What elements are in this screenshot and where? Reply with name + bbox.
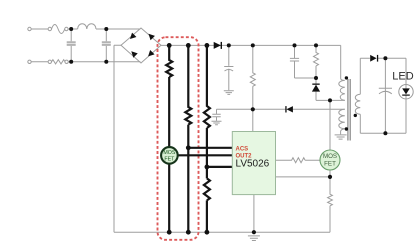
node clamp junction bbox=[314, 76, 318, 80]
svg-text:ACS: ACS bbox=[236, 147, 249, 153]
wire GND pin bbox=[207, 166, 232, 168]
node secondary top bbox=[383, 56, 387, 60]
wire line 1 lower bbox=[168, 163, 170, 232]
snubber capacitor C5 bbox=[290, 45, 316, 78]
capacitor C4 plates bbox=[212, 114, 220, 116]
wire OUT2 pin (gate) bbox=[177, 154, 232, 156]
wire bbox=[68, 28, 78, 30]
capacitor C1 wires bbox=[70, 31, 72, 61]
node rail line1 bbox=[167, 43, 172, 48]
svg-text:MOS: MOS bbox=[323, 153, 337, 160]
diode D4 (output) bbox=[370, 55, 378, 62]
terminal node bbox=[65, 60, 68, 63]
node rail R3 bbox=[314, 43, 318, 47]
transformer T1 aux winding bbox=[339, 109, 345, 129]
wire top input bbox=[31, 28, 48, 30]
bridge diode upper-left bbox=[128, 32, 155, 59]
sense resistor R5 bbox=[328, 177, 333, 232]
node ACS junction bbox=[186, 145, 191, 150]
polarity dot secondary bbox=[354, 114, 357, 117]
inductor L1 bbox=[78, 24, 96, 29]
wire aux return bbox=[341, 129, 345, 135]
svg-text:LED: LED bbox=[392, 71, 413, 83]
terminal J2 (AC line bottom) bbox=[28, 60, 31, 63]
capacitor C2 plates bbox=[102, 42, 111, 45]
wire CS pin bbox=[276, 176, 331, 178]
svg-text:FET: FET bbox=[324, 160, 336, 167]
node rail line3 bbox=[205, 43, 210, 48]
polarity dot primary bbox=[345, 76, 348, 79]
transformer T1 primary winding bbox=[339, 79, 345, 101]
diode D2 (clamp) bbox=[312, 84, 320, 92]
resistor R9 on line 3 lower bbox=[204, 178, 210, 232]
MOSFET Q2 source wire bbox=[329, 170, 331, 177]
svg-text:MOS: MOS bbox=[163, 150, 176, 156]
transformer T1 secondary winding bbox=[355, 94, 360, 114]
terminal J1 (AC line top) bbox=[28, 27, 31, 30]
MOSFET Q2 drain wire bbox=[329, 100, 331, 150]
node drain junction bbox=[328, 98, 332, 102]
ground G1 bbox=[224, 91, 234, 95]
wire bridge minus out bbox=[114, 45, 121, 232]
wire drain link bbox=[316, 99, 345, 101]
bridge diode upper-right bbox=[146, 32, 155, 41]
ground G4 bbox=[212, 121, 222, 124]
node rail C5 bbox=[293, 43, 297, 47]
node bottom line2 bbox=[186, 230, 191, 235]
capacitor C2 wires bbox=[105, 31, 107, 61]
terminal node bbox=[48, 60, 51, 63]
node IC ground bbox=[252, 230, 256, 234]
bridge diode lower-right bbox=[146, 50, 155, 59]
ground G2 bbox=[248, 236, 260, 241]
LED indicator bbox=[392, 71, 413, 100]
dashed highlight box bbox=[158, 37, 199, 240]
resistor R6 on line 1 bbox=[166, 45, 172, 147]
resistor R7 on line 2 bbox=[185, 45, 191, 232]
MOSFET Q1 (in dashed box) bbox=[161, 147, 178, 164]
resistor R2 startup (rail to VCC) bbox=[250, 45, 255, 131]
node bottom line C2 bbox=[104, 60, 108, 64]
wire bottom input bbox=[31, 61, 48, 63]
node rail line2 bbox=[186, 43, 191, 48]
wire bottom rail bbox=[114, 231, 330, 233]
node top line C2 bbox=[104, 27, 108, 31]
gate resistor R4 bbox=[276, 158, 321, 163]
terminal node bbox=[48, 27, 51, 30]
fuse F1 (wave) bbox=[52, 25, 65, 34]
transistor Q2 MOSFET bbox=[320, 150, 340, 170]
diode D3 (VCC rectifier) bbox=[285, 106, 293, 112]
resistor R8 on line 3 bbox=[204, 45, 210, 178]
capacitor C1 plates bbox=[67, 42, 111, 45]
node secondary bottom bbox=[383, 131, 387, 135]
capacitor C3 wires bbox=[228, 46, 230, 90]
node bottom line1 bbox=[167, 230, 172, 235]
node top line C1 bbox=[69, 27, 73, 31]
terminal node bbox=[65, 27, 68, 30]
wire DC+ rail bbox=[161, 45, 341, 78]
node source junction bbox=[328, 175, 332, 179]
capacitor C4 wire bbox=[216, 109, 218, 121]
node rail R2 bbox=[251, 43, 255, 47]
resistor R1 (fusible) bbox=[52, 60, 66, 64]
ground G3 bbox=[335, 135, 347, 139]
wire to bridge bottom bbox=[68, 61, 140, 63]
output capacitor C6 bbox=[379, 58, 392, 133]
IC ground wire bbox=[253, 195, 255, 233]
transformer T1 core bbox=[348, 79, 350, 141]
node GND pin junction bbox=[205, 165, 210, 170]
svg-text:LV5026: LV5026 bbox=[236, 158, 270, 169]
svg-text:FET: FET bbox=[164, 156, 175, 162]
wire ACS pin bbox=[188, 147, 232, 149]
bridge diode lower-left bbox=[129, 49, 138, 58]
wire to bridge top bbox=[96, 28, 140, 30]
capacitor C3 plates bbox=[224, 67, 233, 72]
wire VCC line bbox=[217, 108, 345, 110]
node VCC junction bbox=[251, 107, 255, 111]
polarity dot aux bbox=[345, 127, 348, 130]
snubber resistor R3 bbox=[314, 45, 319, 78]
IC U1 LV5026 controller bbox=[232, 132, 275, 195]
wire clamp diode bbox=[315, 78, 317, 100]
node rail C3 bbox=[227, 43, 231, 47]
diode D1 on rail bbox=[214, 42, 222, 49]
wire secondary loop bbox=[360, 58, 406, 133]
bridge rectifier BR1 diamond bbox=[121, 28, 161, 63]
node bottom line3 bbox=[205, 230, 210, 235]
node bottom line C1 bbox=[69, 60, 73, 64]
